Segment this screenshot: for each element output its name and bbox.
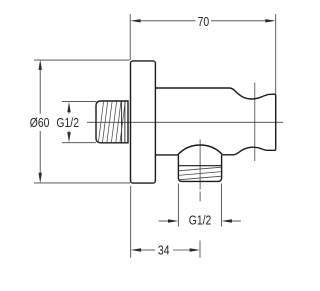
- dimension 34 arrow right: [190, 248, 200, 251]
- dimension 70 lines: [130, 14, 276, 94]
- dimension G1/2 inlet arrow bottom: [67, 132, 70, 142]
- wall flange disc: [131, 61, 156, 183]
- centerline horizontal (body axis): [87, 121, 283, 123]
- inlet connector nut G1/2: [96, 101, 128, 143]
- dimension 70 arrow right: [265, 19, 275, 22]
- dimension G1/2 outlet arrow left: [168, 219, 178, 222]
- dimension G1/2 outlet arrow right: [222, 219, 232, 222]
- svg-text:34: 34: [158, 243, 170, 257]
- svg-text:G1/2: G1/2: [56, 116, 79, 130]
- dimension 34 arrow left: [131, 248, 141, 251]
- svg-text:Ø60: Ø60: [30, 116, 50, 130]
- outlet nut thread lines: [179, 167, 222, 180]
- dimension G1/2 inlet arrow top: [67, 102, 70, 112]
- dimension diameter 60 arrow top: [39, 60, 42, 70]
- body arm bottom edge segment: [155, 154, 177, 156]
- dimension 70 arrow left: [130, 19, 140, 22]
- body arm and handset holder head outline: [155, 88, 275, 155]
- inlet nut knurl hatching: [98, 102, 125, 143]
- dimension diameter 60 lines: [34, 60, 130, 183]
- outlet connector nut G1/2: [178, 155, 221, 182]
- outlet dome cap: [178, 145, 223, 155]
- svg-text:G1/2: G1/2: [189, 213, 212, 227]
- dimension G1/2 outlet lines: [159, 184, 241, 227]
- inlet nut collar rings: [122, 101, 125, 142]
- dimension G1/2 inlet lines: [62, 102, 96, 143]
- dimension 34 lines: [131, 186, 190, 258]
- centerline outlet vertical: [199, 140, 201, 258]
- svg-text:70: 70: [198, 15, 210, 29]
- dimension diameter 60 arrow bottom: [39, 173, 42, 183]
- outlet nut thread shoulder line: [178, 165, 221, 167]
- centerline holder head vertical: [254, 83, 256, 162]
